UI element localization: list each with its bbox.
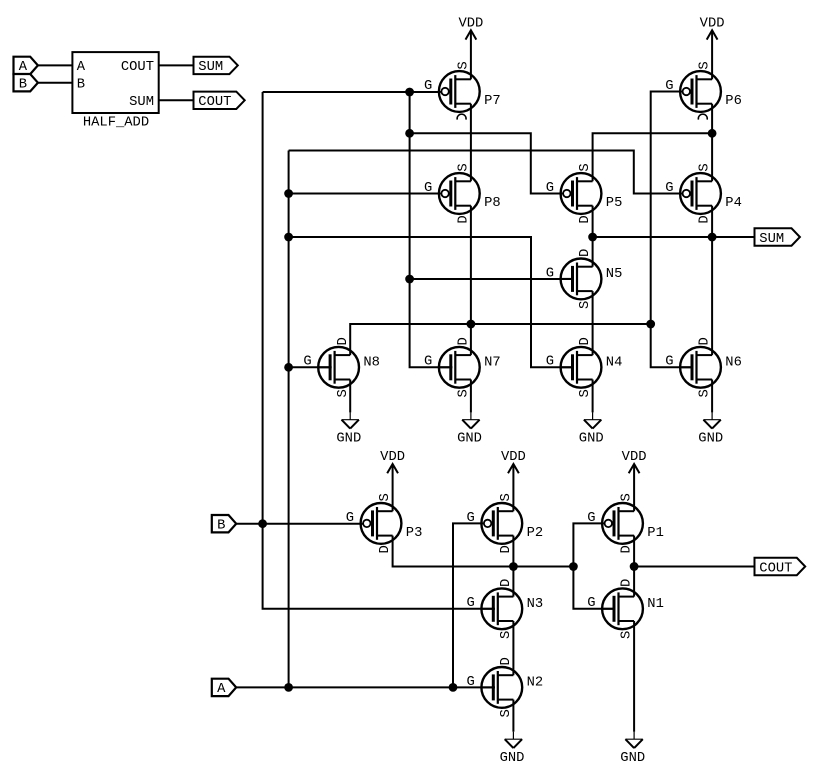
svg-text:D: D [336, 337, 351, 345]
wire P5 drain to N5 drain [592, 206, 594, 267]
power VDD (P7) [458, 16, 483, 39]
transistor N2 (NMOS) [467, 657, 544, 717]
wire net B column x409 [410, 92, 453, 367]
svg-text:S: S [457, 163, 472, 171]
svg-text:N8: N8 [363, 355, 380, 370]
svg-text:S: S [620, 631, 635, 639]
half-adder symbol U1 box [72, 52, 158, 130]
transistor P5 (PMOS) [546, 163, 623, 223]
wire node int1 from N8 drain [350, 324, 651, 355]
svg-text:D: D [457, 337, 472, 345]
port output SUM [755, 228, 800, 247]
svg-text:S: S [578, 163, 593, 171]
junction A net / N4 gate tap [284, 233, 293, 242]
svg-text:D: D [620, 545, 635, 553]
svg-text:GND: GND [698, 431, 723, 446]
svg-text:S: S [336, 389, 351, 397]
svg-text:VDD: VDD [380, 450, 405, 465]
svg-text:D: D [457, 215, 472, 223]
svg-text:P8: P8 [484, 196, 501, 211]
wire P1 drain to N1 drain [633, 536, 635, 597]
svg-text:N7: N7 [484, 355, 501, 370]
svg-text:COUT: COUT [759, 561, 792, 576]
wire P2 drain to N3 drain [512, 536, 514, 597]
svg-text:S: S [457, 61, 472, 69]
port SUM (symbol out) [194, 57, 238, 75]
port input B (symbol) [14, 74, 38, 93]
transistor N6 (NMOS) [665, 337, 742, 397]
wire N8 source to GND [349, 380, 351, 413]
junction B net lower tap [258, 519, 267, 528]
junction cb gate tap [569, 562, 578, 571]
wire net A row lower [236, 686, 495, 688]
svg-text:SUM: SUM [129, 95, 154, 110]
wire COUT pin to SUM flag [159, 64, 194, 66]
svg-text:HALF_ADD: HALF_ADD [83, 115, 149, 130]
transistor P7 (PMOS) [424, 61, 501, 119]
transistor P4 (PMOS) [665, 163, 742, 223]
wire node int1 P8 drain to N7 drain [470, 206, 472, 355]
junction COUT at P1-N1 drains [630, 562, 639, 571]
svg-text:P6: P6 [725, 94, 742, 109]
svg-text:S: S [620, 493, 635, 501]
wire net B vertical [263, 92, 495, 609]
junction cb at P2-N3 drains [509, 562, 518, 571]
svg-text:D: D [578, 249, 593, 257]
junction int1 at P8-N7 drains [467, 320, 476, 329]
svg-text:SUM: SUM [198, 60, 223, 75]
svg-text:D: D [620, 579, 635, 587]
ground (N4) [579, 412, 604, 446]
wire N6 source to GND [711, 380, 713, 413]
svg-text:D: D [499, 657, 514, 665]
transistor P6 (PMOS) [665, 61, 742, 119]
svg-text:S: S [578, 301, 593, 309]
svg-text:D: D [698, 215, 713, 223]
wire net B to P5 gate [410, 133, 563, 193]
transistor P3 (PMOS) [346, 493, 423, 553]
wire N4 source to GND [592, 380, 594, 413]
svg-text:D: D [578, 337, 593, 345]
svg-text:GND: GND [336, 431, 361, 446]
svg-text:A: A [217, 682, 226, 697]
wire node cb to P1 N1 gates [573, 523, 615, 608]
svg-text:D: D [499, 579, 514, 587]
wire P5 source to P6 drain node [593, 133, 713, 181]
transistor N1 (NMOS) [587, 579, 664, 639]
svg-text:GND: GND [579, 431, 604, 446]
transistor N5 (NMOS) [546, 249, 623, 309]
svg-text:VDD: VDD [458, 16, 483, 31]
svg-text:S: S [698, 61, 713, 69]
wire VDD stem P6 [711, 30, 713, 79]
wire P4 drain to N6 drain [711, 206, 713, 355]
svg-text:GND: GND [500, 751, 525, 766]
wire P7 drain to P8 source [470, 104, 472, 182]
transistor P2 (PMOS) [467, 493, 544, 553]
svg-text:P1: P1 [647, 526, 664, 541]
ground (N7) [457, 412, 482, 446]
ground (N8) [336, 412, 361, 446]
svg-text:S: S [499, 709, 514, 717]
junction SUM at P5-N5 drains [588, 233, 597, 242]
junction B net / P5 gate tap [405, 129, 414, 138]
transistor N7 (NMOS) [424, 337, 501, 397]
port output COUT [755, 558, 806, 577]
svg-text:VDD: VDD [622, 450, 647, 465]
wire net A to P2 gate [453, 523, 483, 687]
svg-text:D: D [698, 337, 713, 345]
port input A (symbol) [14, 57, 38, 75]
svg-text:VDD: VDD [700, 16, 725, 31]
svg-text:P2: P2 [527, 526, 544, 541]
svg-text:P4: P4 [725, 196, 742, 211]
wire net A vertical x288 [288, 151, 290, 688]
svg-text:S: S [499, 493, 514, 501]
wire P6 drain to P4 source [711, 104, 713, 182]
port COUT (symbol out) [194, 92, 245, 111]
svg-text:P5: P5 [606, 196, 623, 211]
svg-text:SUM: SUM [759, 232, 784, 247]
svg-text:D: D [578, 215, 593, 223]
svg-text:N6: N6 [725, 355, 742, 370]
power VDD (P3) [380, 450, 405, 473]
wire net B to P7 gate [263, 91, 441, 93]
junction B net / P7 gate tap [405, 88, 414, 97]
junction A net / N8 gate tap [284, 363, 293, 372]
wire VDD stem P1 [633, 464, 635, 511]
svg-text:D: D [378, 545, 393, 553]
svg-text:N2: N2 [527, 675, 544, 690]
port input A [212, 679, 236, 698]
junction A net tap x453 [449, 683, 458, 692]
svg-text:S: S [578, 389, 593, 397]
svg-text:B: B [19, 78, 27, 93]
wire N3 source to N2 drain [512, 621, 514, 675]
svg-text:D: D [499, 545, 514, 553]
ground (N6) [698, 412, 723, 446]
svg-text:P3: P3 [406, 526, 423, 541]
svg-text:COUT: COUT [121, 60, 154, 75]
svg-text:S: S [499, 631, 514, 639]
wire N5 source to N4 drain [592, 291, 594, 355]
port input B [212, 515, 236, 534]
wire VDD stem P3 [392, 464, 394, 511]
svg-text:VDD: VDD [501, 450, 526, 465]
junction P6 drain / P5 source [708, 129, 717, 138]
svg-text:N5: N5 [606, 267, 623, 282]
junction int1 at P6 gate line [646, 320, 655, 329]
wire N2 source to GND [512, 700, 514, 732]
wire N1 source to GND [633, 621, 635, 732]
wire node int1 to P6 gate [651, 92, 694, 368]
wire P3 drain to node cb [393, 536, 574, 567]
svg-text:S: S [457, 389, 472, 397]
svg-text:B: B [217, 519, 225, 534]
svg-text:N3: N3 [527, 597, 544, 612]
svg-text:S: S [378, 493, 393, 501]
wire net B to N5 gate [410, 278, 574, 280]
wire VDD stem P7 [470, 30, 472, 79]
wire A port to box [38, 64, 73, 66]
svg-text:GND: GND [457, 431, 482, 446]
power VDD (P1) [622, 450, 647, 473]
power VDD (P6) [700, 16, 725, 39]
svg-text:COUT: COUT [198, 95, 231, 110]
power VDD (P2) [501, 450, 526, 473]
transistor N8 (NMOS) [303, 337, 380, 397]
wire B port to box [38, 82, 73, 84]
ground (N2) [500, 732, 525, 766]
junction SUM at P4 drain [708, 233, 717, 242]
svg-text:GND: GND [620, 751, 645, 766]
wire net A to N4 gate [289, 237, 574, 367]
junction A net / P8 gate tap [284, 189, 293, 198]
wire net SUM [593, 236, 755, 238]
svg-text:N4: N4 [606, 355, 623, 370]
svg-text:N1: N1 [647, 597, 664, 612]
junction A net tap x288 [284, 683, 293, 692]
ground (N1) [620, 732, 645, 766]
wire net A to P4 gate [289, 151, 682, 194]
wire VDD stem P2 [512, 464, 514, 511]
wire net B row lower [236, 523, 362, 525]
transistor N3 (NMOS) [467, 579, 544, 639]
wire SUM pin to COUT flag [159, 99, 194, 101]
transistor P8 (PMOS) [424, 163, 501, 223]
wire N7 source to GND [470, 380, 472, 413]
svg-text:S: S [698, 163, 713, 171]
svg-text:P7: P7 [484, 94, 501, 109]
wire net A to P8 gate [289, 193, 441, 195]
svg-text:B: B [77, 78, 85, 93]
transistor P1 (PMOS) [587, 493, 664, 553]
wire net COUT [634, 566, 754, 568]
junction B net / N5 gate tap [405, 275, 414, 284]
wire net A to N8 gate [289, 366, 332, 368]
svg-text:S: S [698, 389, 713, 397]
transistor N4 (NMOS) [546, 337, 623, 397]
svg-text:A: A [77, 60, 86, 75]
